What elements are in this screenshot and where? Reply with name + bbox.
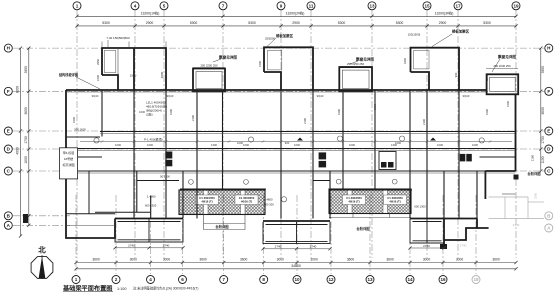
svg-text:1000: 1000: [472, 143, 478, 147]
svg-text:7: 7: [222, 3, 225, 8]
wall block at B/A rows left: [23, 214, 28, 223]
top grid bubbles 1..19: [73, 2, 520, 10]
outer wall: top edge of main building y=90: [66, 89, 487, 91]
svg-text:12: 12: [328, 277, 334, 282]
balcony unit 2: [263, 222, 330, 244]
interior horizontal walls: [66, 132, 515, 214]
svg-text:1:100: 1:100: [117, 287, 127, 291]
svg-text:5300: 5300: [396, 21, 404, 25]
svg-text:13200(1#栋): 13200(1#栋): [141, 11, 160, 16]
hatched planter 1 (between units 1-2): [179, 190, 265, 215]
svg-text:基础梁平面布置图: 基础梁平面布置图: [62, 285, 113, 293]
svg-text:3000: 3000: [130, 258, 138, 262]
interior vertical party walls: [102, 90, 516, 219]
svg-text:北: 北: [38, 245, 46, 255]
svg-text:1000: 1000: [115, 143, 121, 147]
svg-text:3600: 3600: [541, 107, 545, 115]
svg-text:1090: 1090: [169, 109, 173, 115]
svg-text:3600: 3600: [92, 258, 100, 262]
svg-text:5: 5: [163, 3, 166, 8]
phase 2 building grey outline: [489, 197, 544, 219]
svg-text:50 1500: 50 1500: [160, 175, 170, 179]
svg-text:17: 17: [455, 3, 461, 8]
svg-text:15: 15: [424, 3, 430, 8]
svg-text:5300: 5300: [190, 21, 198, 25]
svg-text:2740: 2740: [163, 244, 170, 248]
elevator shaft unit 3 (filled boxes): [460, 154, 466, 162]
svg-text:4.4800: 4.4800: [264, 198, 273, 202]
circles above planter 2: [336, 179, 341, 184]
svg-text:1090: 1090: [485, 109, 489, 115]
svg-text:3600: 3600: [347, 258, 355, 262]
svg-text:250 2250 250: 250 2250 250: [200, 63, 218, 67]
svg-text:E: E: [7, 129, 10, 134]
thin line right end room: [502, 193, 516, 195]
svg-text:1200: 1200: [485, 75, 489, 81]
elevator shaft unit 1 (filled boxes): [165, 152, 172, 159]
svg-text:1150: 1150: [531, 154, 535, 161]
svg-text:34800: 34800: [291, 264, 301, 268]
svg-text:标高详图: 标高详图: [62, 162, 74, 167]
svg-text:3900: 3900: [541, 66, 545, 74]
svg-text:1800: 1800: [403, 58, 407, 64]
svg-text:90|40: 90|40: [317, 94, 324, 98]
svg-text:4: 4: [149, 277, 152, 282]
svg-text:1500: 1500: [72, 117, 76, 123]
section arrows on dim row: [297, 138, 303, 141]
svg-text:8300: 8300: [16, 86, 20, 94]
svg-text:14: 14: [407, 277, 413, 282]
svg-text:1090: 1090: [337, 109, 341, 115]
black pier right end: [514, 175, 519, 180]
bottom grid bubbles 1..16: [72, 276, 447, 284]
bay window C: [487, 74, 519, 94]
north arrow: [31, 257, 53, 279]
svg-text:1000: 1000: [243, 143, 249, 147]
svg-text:1#号楼: 1#号楼: [64, 156, 73, 161]
svg-text:90|40: 90|40: [92, 94, 99, 98]
thin partition lower-left block: [66, 225, 115, 227]
svg-text:甲4,标层: 甲4,标层: [63, 150, 75, 155]
svg-text:300 1600: 300 1600: [74, 128, 86, 132]
svg-text:600 1300: 600 1300: [145, 204, 157, 208]
svg-text:8: 8: [262, 277, 265, 282]
svg-text:台阶详图: 台阶详图: [527, 171, 541, 176]
svg-text:飘窗见详图: 飘窗见详图: [219, 55, 237, 60]
svg-text:4Φ16 (T): 4Φ16 (T): [348, 199, 359, 203]
bottom grid bubble 18 (grey / phase 2): [472, 276, 480, 284]
svg-text:1000: 1000: [147, 143, 153, 147]
stair shaft 2 (unit 2): [264, 47, 313, 90]
stair shaft box mid unit 3: [379, 152, 396, 170]
svg-text:1530: 1530: [130, 74, 137, 78]
svg-text:7: 7: [222, 277, 225, 282]
left row bubbles H F E D C B A: [4, 44, 12, 229]
svg-text:2300: 2300: [534, 192, 538, 199]
svg-text:F: F: [7, 89, 10, 94]
legend box 2a inside hatch: [343, 195, 366, 205]
svg-text:3600: 3600: [24, 107, 28, 115]
svg-text:13200(2#栋): 13200(2#栋): [286, 11, 305, 16]
svg-text:3000: 3000: [423, 258, 431, 262]
svg-text:3740: 3740: [513, 223, 520, 227]
svg-text:2900: 2900: [292, 21, 300, 25]
svg-text:1.4800: 1.4800: [147, 195, 156, 199]
svg-text:2: 2: [115, 277, 118, 282]
svg-text:1090: 1090: [373, 104, 377, 110]
svg-text:1100: 1100: [541, 156, 545, 163]
right dimension line with row spacing: [539, 47, 542, 173]
svg-text:5300: 5300: [338, 21, 346, 25]
balcony unit 3: [410, 219, 444, 243]
svg-text:1000: 1000: [349, 143, 355, 147]
svg-text:600 300: 600 300: [264, 203, 274, 207]
svg-text:1500: 1500: [506, 101, 510, 107]
svg-text:1000: 1000: [139, 110, 145, 114]
svg-text:6: 6: [181, 277, 184, 282]
right row bubbles H F E D C: [545, 44, 553, 175]
small axis circles inside plan: [94, 136, 484, 202]
svg-text:1: 1: [76, 3, 79, 8]
svg-text:900: 900: [285, 141, 290, 145]
bay window B: [339, 67, 372, 91]
elevator shaft unit 2 (filled boxes): [319, 152, 327, 159]
svg-text:2900: 2900: [146, 21, 154, 25]
interior tiny dims row: [92, 94, 470, 145]
thin secondary wall lines: [66, 92, 515, 173]
svg-text:3600: 3600: [199, 258, 207, 262]
svg-text:13200(3#栋): 13200(3#栋): [435, 11, 454, 16]
legend box 1b inside hatch: [235, 195, 258, 205]
svg-text:2740: 2740: [275, 245, 282, 249]
bottom dimension line: bay segments: [74, 261, 517, 264]
svg-text:11: 11: [309, 3, 314, 8]
left outer wall and bottom-left section: [66, 90, 115, 238]
svg-text:1000: 1000: [437, 143, 443, 147]
svg-text:3000: 3000: [277, 258, 285, 262]
svg-text:600 1300: 600 1300: [414, 205, 426, 209]
legend box 2b inside hatch: [384, 195, 407, 205]
stair shaft 3 (unit 3): [411, 48, 460, 90]
svg-text:F: F: [547, 89, 550, 94]
balcony unit 1: [115, 219, 183, 242]
svg-text:90|40: 90|40: [167, 94, 174, 98]
svg-text:2740: 2740: [423, 244, 430, 248]
left legend box 甲4: [60, 148, 78, 179]
top dimension line: overall 13200 per unit: [75, 15, 517, 18]
bottom dimension line: total 34800: [74, 267, 517, 270]
svg-text:9: 9: [280, 3, 283, 8]
top dimension line: bay segments 5300/2900: [75, 24, 517, 27]
svg-text:250 2240 250: 250 2240 250: [493, 64, 511, 68]
rotated dims beside party walls: [72, 58, 510, 125]
svg-text:2190: 2190: [303, 118, 307, 124]
svg-text:E: E: [547, 129, 550, 134]
steps below planter 1: [204, 215, 246, 230]
svg-text:2950: 2950: [96, 59, 100, 65]
lower-left wall segments: [66, 181, 330, 214]
svg-text:2190: 2190: [191, 115, 195, 121]
svg-text:4000: 4000: [160, 71, 164, 78]
svg-text:19: 19: [513, 3, 519, 8]
legend box 1a inside hatch: [196, 195, 219, 205]
svg-text:10: 10: [294, 277, 300, 282]
svg-text:7.40 150|500|500: 7.40 150|500|500: [106, 36, 130, 40]
svg-text:(2肢): (2肢): [146, 112, 153, 117]
steps below planter 2: [329, 214, 411, 218]
bay window A: [193, 69, 225, 92]
svg-text:1700: 1700: [24, 136, 28, 144]
svg-text:3600: 3600: [386, 258, 394, 262]
svg-text:台阶详图: 台阶详图: [356, 226, 370, 231]
svg-text:3600: 3600: [492, 258, 500, 262]
svg-text:3000: 3000: [456, 258, 464, 262]
svg-text:3600: 3600: [240, 258, 248, 262]
svg-text:飘窗见详图: 飘窗见详图: [498, 54, 516, 59]
svg-text:楼板加腋区: 楼板加腋区: [452, 29, 470, 34]
svg-text:1000: 1000: [237, 141, 243, 145]
svg-text:940: 940: [454, 72, 458, 77]
left dimension lines with row spacing: [19, 47, 31, 238]
svg-text:4Φ16 (T): 4Φ16 (T): [201, 199, 212, 203]
svg-text:1000: 1000: [395, 141, 401, 145]
svg-text:2900: 2900: [439, 21, 447, 25]
svg-text:5300: 5300: [483, 21, 491, 25]
svg-text:1700: 1700: [541, 136, 545, 144]
svg-text:1: 1: [75, 277, 78, 282]
svg-text:4Φ16 (T): 4Φ16 (T): [389, 199, 400, 203]
svg-text:注:未注明基础梁均为JL(2A) 300X600 4Φ16(: 注:未注明基础梁均为JL(2A) 300X600 4Φ16(T): [133, 286, 198, 291]
svg-text:3900: 3900: [24, 66, 28, 74]
svg-text:1000: 1000: [294, 143, 300, 147]
svg-text:13: 13: [367, 277, 373, 282]
svg-text:飘窗见详图: 飘窗见详图: [356, 57, 374, 62]
svg-text:90|40: 90|40: [463, 94, 470, 98]
black pier at balcony 3 corner: [440, 244, 447, 249]
svg-text:3000: 3000: [310, 258, 318, 262]
svg-text:250 2250 250: 250 2250 250: [347, 62, 365, 66]
svg-text:1500: 1500: [96, 75, 100, 81]
svg-text:4000: 4000: [16, 147, 20, 155]
svg-text:楼板加腋区: 楼板加腋区: [276, 33, 294, 38]
svg-text:台阶详图: 台阶详图: [215, 224, 229, 229]
svg-text:4Φ16 (T): 4Φ16 (T): [241, 199, 252, 203]
svg-text:2190: 2190: [422, 119, 426, 125]
svg-text:P-1.450(梁顶): P-1.450(梁顶): [144, 136, 163, 141]
right end walls: [444, 94, 516, 249]
svg-text:1500: 1500: [258, 61, 262, 67]
stair shaft 1 (unit 1): [102, 48, 166, 90]
svg-text:2740: 2740: [128, 244, 135, 248]
svg-text:5300: 5300: [248, 21, 256, 25]
svg-text:18: 18: [473, 277, 479, 282]
interior dimension row across plan y=141.5: [80, 140, 512, 143]
svg-text:16: 16: [440, 277, 446, 282]
svg-text:3000: 3000: [163, 258, 171, 262]
svg-text:4: 4: [134, 3, 137, 8]
svg-text:13: 13: [369, 3, 375, 8]
svg-text:2740: 2740: [310, 245, 317, 249]
hatched planter 2 (between units 2-3): [329, 189, 411, 214]
main bottom wall segments: [115, 219, 489, 229]
circles above planter 1: [189, 180, 194, 185]
svg-text:1800: 1800: [24, 156, 28, 164]
svg-text:结构找坡详图: 结构找坡详图: [59, 72, 78, 77]
svg-text:150(1500): 150(1500): [408, 33, 421, 37]
svg-text:1300: 1300: [211, 143, 217, 147]
svg-text:5300: 5300: [102, 21, 110, 25]
svg-text:2740: 2740: [460, 244, 467, 248]
right row bubbles B A (grey / phase 2): [545, 212, 553, 232]
